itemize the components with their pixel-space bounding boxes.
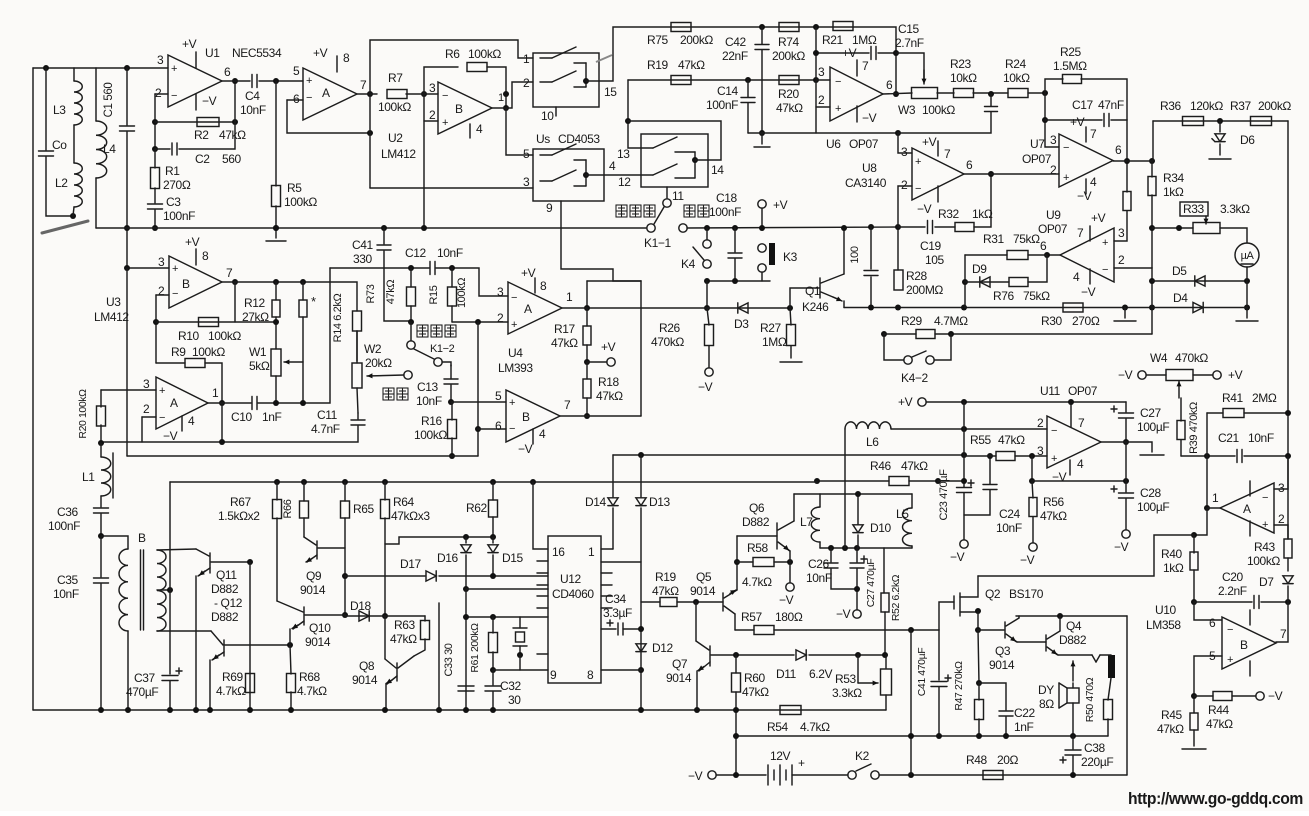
node U7 out a (1124, 158, 1130, 164)
svg-text:Co: Co (52, 138, 67, 152)
wire row548 (820, 547, 912, 549)
svg-text:C42: C42 (725, 35, 747, 49)
svg-text:R16: R16 (421, 414, 443, 428)
svg-text:−: − (172, 288, 178, 300)
wire U12 pin16 feed (530, 479, 536, 485)
resistor R34 1k (1148, 177, 1156, 196)
svg-text:K2: K2 (855, 749, 870, 763)
svg-text:6: 6 (886, 78, 893, 92)
switch contacts box2 (641, 147, 653, 149)
switch K1-1 lever (654, 207, 664, 224)
speaker DY 8ohm (1072, 661, 1074, 681)
svg-text:- Q12: - Q12 (214, 596, 243, 610)
svg-text:12: 12 (618, 175, 631, 189)
svg-text:LM412: LM412 (381, 147, 416, 161)
svg-text:R73: R73 (365, 284, 377, 303)
op-amp U7 OP07 (1059, 134, 1113, 187)
node x939 mid (936, 733, 942, 739)
svg-text:47kΩ: 47kΩ (652, 584, 679, 598)
svg-text:C11: C11 (317, 408, 338, 422)
svg-text:9014: 9014 (352, 673, 378, 687)
op-amp U10A (1220, 483, 1274, 533)
svg-text:7: 7 (1078, 416, 1085, 430)
resistor R55 47k (964, 455, 996, 457)
node D10 bottom (854, 545, 860, 551)
node D15 top (490, 534, 496, 540)
svg-text:6: 6 (1040, 239, 1047, 253)
svg-text:R64: R64 (393, 495, 415, 509)
svg-text:C27 470µF: C27 470µF (865, 559, 877, 608)
wire U4A out (562, 307, 587, 309)
svg-text:10nF: 10nF (240, 103, 266, 117)
capacitor C28 100uF (1125, 481, 1127, 492)
svg-text:200kΩ: 200kΩ (680, 33, 713, 47)
svg-text:10: 10 (541, 109, 554, 123)
node row281 a (704, 278, 710, 284)
svg-text:8: 8 (202, 249, 209, 263)
capacitor C4 10nF (222, 80, 250, 82)
svg-text:K246: K246 (802, 300, 829, 314)
svg-text:200kΩ: 200kΩ (1258, 99, 1291, 113)
svg-text:47kΩ: 47kΩ (219, 128, 246, 142)
svg-text:9: 9 (546, 201, 553, 215)
resistor R41 2M (1223, 409, 1244, 418)
svg-text:180Ω: 180Ω (775, 610, 803, 624)
svg-text:−V: −V (950, 550, 965, 564)
capacitor C41 470uF (931, 681, 947, 683)
terminal C28 -V (1122, 530, 1130, 538)
svg-text:U4: U4 (508, 346, 523, 360)
node C17 left (1042, 117, 1048, 123)
svg-text:D4: D4 (1173, 291, 1188, 305)
svg-text:C37: C37 (134, 671, 156, 685)
svg-text:R14 6.2kΩ: R14 6.2kΩ (332, 294, 344, 343)
capacitor C23 470uF (957, 487, 972, 489)
wire U2B out to mux pin5 (506, 108, 533, 155)
op-amp U8 CA3140 (912, 148, 964, 200)
wire R19 junction wrap to pin14 (628, 80, 641, 148)
svg-text:LM393: LM393 (498, 361, 533, 375)
svg-text:K4−2: K4−2 (901, 371, 928, 385)
svg-text:R15: R15 (428, 285, 440, 304)
wire x439 column (438, 603, 440, 710)
svg-text:R56: R56 (1043, 495, 1065, 509)
svg-text:+: + (1051, 453, 1057, 465)
svg-text:11: 11 (672, 189, 684, 203)
svg-text:R58: R58 (747, 541, 769, 555)
svg-text:W3: W3 (898, 103, 916, 117)
wire U10A out down (1194, 508, 1207, 535)
svg-text:R57: R57 (741, 610, 763, 624)
svg-text:+: + (172, 263, 178, 275)
node C34 right (638, 626, 644, 632)
resistor R60 47k (735, 655, 737, 673)
svg-text:1.5MΩ: 1.5MΩ (1053, 59, 1087, 73)
svg-text:*: * (311, 294, 316, 309)
resistor R73 47k (410, 268, 412, 287)
svg-text:C22: C22 (1014, 706, 1036, 720)
resistor R68 4.7k (290, 645, 291, 674)
terminal R58 -V (789, 562, 791, 583)
svg-text:10nF: 10nF (437, 246, 463, 260)
svg-text:R19: R19 (647, 58, 669, 72)
svg-text:D17: D17 (400, 557, 422, 571)
svg-text:2: 2 (523, 76, 530, 90)
svg-text:Q7: Q7 (672, 657, 688, 671)
op-amp U9 OP07 (1060, 228, 1114, 282)
svg-text:C33 30: C33 30 (443, 643, 455, 676)
node C24 top (987, 453, 993, 459)
resistor R25 1.5M feedback (1045, 79, 1063, 93)
svg-text:2: 2 (818, 93, 825, 107)
node U3A out (219, 400, 225, 406)
svg-text:C32: C32 (500, 679, 522, 693)
crystal (519, 617, 521, 628)
transistor Q7 9014 (695, 602, 697, 641)
svg-text:D3: D3 (734, 317, 749, 331)
inductor L4 (95, 68, 97, 121)
svg-text:R66: R66 (282, 499, 294, 518)
wire D17 row (345, 575, 425, 577)
wire source drop (977, 611, 979, 630)
svg-text:R19: R19 (655, 570, 677, 584)
svg-text:R34: R34 (1163, 171, 1185, 185)
svg-text:R20: R20 (778, 87, 800, 101)
wire R36 feed (1152, 121, 1154, 161)
capacitor C2 560 (152, 146, 158, 152)
svg-text:−: − (1102, 264, 1108, 276)
node box2 common (692, 157, 698, 163)
wire right frame (1287, 121, 1289, 539)
resistor R23 10k (954, 89, 974, 98)
node D4 right (1244, 305, 1250, 311)
svg-text:R21: R21 (822, 33, 844, 47)
capacitor C19 105 (898, 226, 925, 228)
svg-text:−V: −V (1077, 189, 1092, 203)
node U9 junction (1044, 252, 1050, 258)
svg-text:4.7nF: 4.7nF (311, 422, 340, 436)
svg-text:L6: L6 (866, 435, 879, 449)
svg-text:47kΩ: 47kΩ (596, 389, 623, 403)
resistor R19 47k (671, 76, 691, 85)
svg-text:4: 4 (476, 122, 483, 136)
svg-text:7: 7 (862, 59, 869, 73)
svg-text:U6: U6 (826, 137, 841, 151)
svg-text:3: 3 (818, 65, 825, 79)
svg-text:µA: µA (1241, 250, 1255, 262)
wire R36 row (1153, 120, 1288, 122)
node U2B out a (503, 91, 509, 97)
svg-text:100µF: 100µF (1137, 420, 1169, 434)
wire C15 to W3 wiper (896, 53, 924, 80)
node U4A out (584, 305, 590, 311)
analog switch CD4053 box1b (533, 149, 604, 201)
wire meter row (1152, 227, 1193, 229)
label ID2 cjk (383, 388, 394, 400)
node D9 row (962, 279, 968, 285)
svg-text:10nF: 10nF (53, 587, 79, 601)
svg-text:3: 3 (523, 175, 530, 189)
svg-text:R26: R26 (659, 321, 681, 335)
svg-text:D7: D7 (1259, 575, 1274, 589)
wire to Q2 drain (978, 535, 1194, 576)
svg-text:1kΩ: 1kΩ (1163, 185, 1184, 199)
svg-text:2: 2 (1037, 416, 1044, 430)
svg-text:R1: R1 (165, 164, 180, 178)
svg-text:270Ω: 270Ω (163, 178, 191, 192)
wire U2B out to mux (492, 82, 533, 108)
svg-text:−V: −V (862, 111, 877, 125)
node R17 bottom (584, 359, 590, 365)
svg-text:47kΩ: 47kΩ (1040, 509, 1067, 523)
wire U9 out (1047, 254, 1060, 256)
wire U11 out (1101, 442, 1152, 452)
wire R7 node to U2B pin2 and ground rail (423, 94, 425, 228)
svg-text:10nF: 10nF (416, 394, 442, 408)
svg-text:100kΩ: 100kΩ (456, 278, 468, 308)
svg-text:−V: −V (1268, 689, 1283, 703)
svg-text:+V: +V (898, 395, 913, 409)
wire q11col drop (249, 562, 251, 710)
svg-text:3: 3 (157, 53, 164, 67)
svg-text:D16: D16 (437, 551, 459, 565)
svg-text:L4: L4 (103, 142, 116, 156)
svg-text:15: 15 (604, 85, 617, 99)
wire mux out 15 to top row (586, 27, 671, 81)
capacitor C36 100nF (94, 507, 109, 509)
resistor R31 75k (965, 254, 1007, 256)
node D5 right (1244, 278, 1250, 284)
node rail 439 (436, 707, 442, 713)
node U10A out (1204, 505, 1210, 511)
terminal ID 2 (404, 371, 412, 379)
capacitor C34 3.3uF (601, 628, 616, 630)
svg-text:100nF: 100nF (163, 209, 195, 223)
wire +V row (918, 398, 926, 406)
svg-text:Q5: Q5 (696, 570, 712, 584)
svg-text:1nF: 1nF (262, 410, 282, 424)
node row548 c26 (828, 545, 834, 551)
wire D3 row (587, 307, 790, 309)
wire U12 pin1 (601, 548, 613, 550)
node U4B out (584, 413, 590, 419)
node R58 left (734, 559, 740, 565)
wire U2A top loop (370, 40, 533, 94)
terminal +V mid (587, 361, 607, 363)
wire battery row (708, 771, 716, 779)
svg-text:LM412: LM412 (94, 310, 129, 324)
svg-text:20Ω: 20Ω (997, 753, 1019, 767)
capacitor C1 (126, 68, 128, 125)
svg-text:C35: C35 (57, 573, 79, 587)
resistor R10 100k (156, 321, 276, 323)
switch K4-2 (884, 334, 904, 360)
svg-text:R40: R40 (1161, 547, 1183, 561)
svg-text:1: 1 (523, 52, 530, 66)
svg-text:5: 5 (293, 64, 300, 78)
svg-text:C2: C2 (195, 152, 210, 166)
wire C33 top row (466, 616, 548, 618)
capacitor C27b 470uF (856, 548, 858, 562)
svg-text:C13: C13 (417, 380, 439, 394)
svg-text:+V: +V (601, 340, 616, 354)
node battery rail 911 (908, 772, 914, 778)
svg-text:U2: U2 (388, 131, 403, 145)
node R40 top (1191, 532, 1197, 538)
svg-text:R65: R65 (353, 502, 375, 516)
diode D11 6.2V (796, 650, 806, 660)
svg-text:C4: C4 (245, 89, 260, 103)
svg-text:D11: D11 (776, 667, 797, 681)
svg-text:9: 9 (550, 668, 557, 682)
svg-text:−V: −V (688, 769, 703, 783)
svg-text:200kΩ: 200kΩ (772, 49, 805, 63)
svg-text:47kΩ: 47kΩ (1157, 722, 1184, 736)
op-amp U3B (169, 256, 222, 308)
wire U4B pin5 (451, 401, 506, 403)
svg-text:C23 470µF: C23 470µF (938, 469, 950, 521)
meter uA (1235, 243, 1259, 267)
svg-text:C27: C27 (1140, 406, 1162, 420)
resistor R9 100k (156, 362, 185, 364)
svg-text:2MΩ: 2MΩ (1252, 391, 1277, 405)
svg-text:13: 13 (617, 147, 630, 161)
svg-text:20kΩ: 20kΩ (365, 356, 392, 370)
wire pin9 drop (561, 201, 641, 281)
node D11 left (733, 652, 739, 658)
svg-text:−V: −V (836, 607, 851, 621)
svg-text:2: 2 (155, 86, 162, 100)
svg-text:270Ω: 270Ω (1072, 314, 1100, 328)
wire sec tap (157, 589, 170, 591)
resistor R1 270 (154, 149, 156, 168)
svg-text:D6: D6 (1240, 133, 1255, 147)
svg-text:L7: L7 (800, 515, 813, 529)
svg-text:105: 105 (925, 253, 945, 267)
svg-text:2: 2 (1278, 512, 1285, 526)
node speaker bottom (1070, 733, 1076, 739)
svg-text:−: − (159, 412, 165, 424)
svg-text:9014: 9014 (300, 583, 326, 597)
wire U10A feed (1206, 413, 1208, 508)
svg-text:C41: C41 (352, 238, 374, 252)
svg-text:A: A (1243, 502, 1251, 516)
capacitor C17 47nF (1045, 119, 1102, 121)
svg-text:−V: −V (163, 429, 178, 443)
resistor R63 47k (424, 616, 426, 621)
svg-text:7: 7 (1280, 627, 1287, 641)
inductor L5 (911, 494, 913, 508)
svg-text:Q4: Q4 (1066, 619, 1082, 633)
wire U10A pin3 (1274, 456, 1288, 489)
svg-text:R62: R62 (466, 501, 488, 515)
svg-text:C38: C38 (1084, 741, 1106, 755)
svg-text:6.2V: 6.2V (809, 667, 832, 681)
svg-text:LM358: LM358 (1146, 618, 1181, 632)
svg-text:R25: R25 (1060, 45, 1082, 59)
svg-text:4.7kΩ: 4.7kΩ (297, 684, 327, 698)
node U2B out b (503, 105, 509, 111)
potentiometer W3 100k (883, 93, 912, 94)
resistor R-U9 fb (1123, 192, 1131, 211)
node row307 a (868, 305, 874, 311)
svg-text:9014: 9014 (690, 584, 716, 598)
svg-text:3: 3 (158, 255, 165, 269)
terminal C23 -V (960, 540, 968, 548)
svg-text:100: 100 (849, 246, 861, 263)
svg-text:47kΩ: 47kΩ (1206, 717, 1233, 731)
svg-text:D882: D882 (1059, 633, 1087, 647)
node D3 right (787, 305, 793, 311)
svg-text:C36: C36 (57, 505, 79, 519)
potentiometer R33 3.3k (1193, 223, 1220, 234)
svg-text:+V: +V (1228, 368, 1243, 382)
battery 12V (767, 765, 769, 785)
resistor R64 47k (382, 479, 388, 485)
node fb row (219, 439, 225, 445)
wire row 307 (844, 307, 1152, 309)
svg-text:4: 4 (1090, 175, 1097, 189)
resistor R67 1.5k (274, 479, 280, 485)
svg-text:1kΩ: 1kΩ (1163, 561, 1184, 575)
svg-text:Q9: Q9 (306, 569, 322, 583)
node Q5 base (693, 599, 699, 605)
svg-text:Us: Us (536, 132, 550, 146)
wire C22 link (979, 683, 1006, 710)
svg-text:+: + (798, 756, 805, 770)
svg-text:R69: R69 (222, 670, 244, 684)
node K4 top (704, 225, 710, 231)
resistor R44 47k (1194, 695, 1213, 697)
capacitor C41b 330 (383, 228, 385, 244)
resistor R2 47k (155, 121, 235, 123)
node D16 bottom (463, 586, 469, 592)
node C42 top (759, 24, 765, 30)
svg-text:W4: W4 (1150, 351, 1168, 365)
resistor R46 47k (889, 477, 909, 486)
node Rstar bottom (300, 400, 306, 406)
svg-text:47kΩx3: 47kΩx3 (391, 509, 430, 523)
capacitor 100 (870, 227, 872, 269)
wire loop bottom to pin3 (370, 187, 533, 189)
svg-text:B: B (455, 102, 463, 116)
svg-text:U1: U1 (205, 46, 220, 60)
svg-text:W2: W2 (364, 342, 382, 356)
svg-text:−: − (511, 292, 517, 304)
node R24 right (1042, 90, 1048, 96)
svg-text:OP07: OP07 (849, 137, 879, 151)
svg-text:+: + (835, 103, 841, 115)
wire U10A pin2 (1274, 525, 1288, 539)
svg-text:6: 6 (966, 158, 973, 172)
node R61 top (490, 614, 496, 620)
svg-text:C20: C20 (1222, 570, 1244, 584)
label ID cjk (684, 205, 695, 217)
op-amp U1 NEC5534 (168, 55, 222, 107)
svg-text:http://www.go-gddq.com: http://www.go-gddq.com (1128, 789, 1303, 808)
svg-text:1nF: 1nF (1014, 720, 1034, 734)
node C12 left (408, 265, 414, 271)
svg-text:−: − (1063, 142, 1069, 154)
node C42a (759, 225, 765, 231)
node C15 right (893, 50, 899, 56)
svg-text:−: − (306, 92, 312, 104)
resistor R69 4.7k (246, 674, 255, 693)
svg-text:4.7kΩ: 4.7kΩ (742, 575, 772, 589)
node C33 top (463, 614, 469, 620)
resistor R40 1k (1193, 535, 1195, 553)
node C16 top (988, 91, 994, 97)
